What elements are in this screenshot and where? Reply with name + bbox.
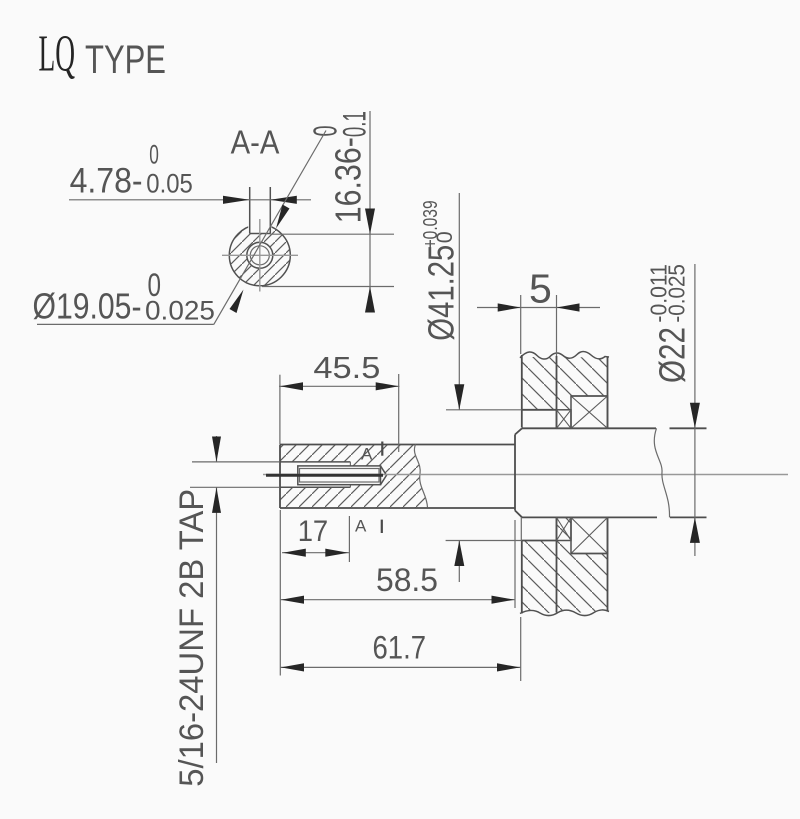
svg-text:5/16-24UNF 2B TAP: 5/16-24UNF 2B TAP [173, 489, 211, 787]
svg-text:4.78-: 4.78- [70, 162, 143, 201]
svg-text:45.5: 45.5 [313, 350, 380, 385]
svg-text:58.5: 58.5 [376, 562, 438, 598]
svg-text:0: 0 [149, 140, 159, 170]
svg-text:0: 0 [432, 231, 457, 243]
svg-text:LQ: LQ [39, 26, 76, 83]
svg-text:0: 0 [148, 267, 162, 303]
svg-text:5: 5 [529, 266, 552, 312]
svg-text:Ø41.25: Ø41.25 [421, 245, 462, 341]
svg-text:Ø19.05-: Ø19.05- [33, 286, 142, 327]
svg-text:-0.025: -0.025 [664, 264, 690, 323]
svg-text:61.7: 61.7 [373, 630, 427, 666]
svg-text:A: A [355, 517, 367, 536]
svg-text:0.05: 0.05 [146, 169, 193, 199]
svg-text:17: 17 [298, 515, 329, 548]
svg-text:0: 0 [307, 126, 344, 137]
svg-text:A: A [361, 445, 373, 464]
svg-text:TYPE: TYPE [85, 38, 166, 82]
svg-text:A-A: A-A [231, 125, 280, 162]
svg-text:Ø22: Ø22 [652, 327, 693, 383]
svg-text:16.36-: 16.36- [328, 137, 369, 223]
